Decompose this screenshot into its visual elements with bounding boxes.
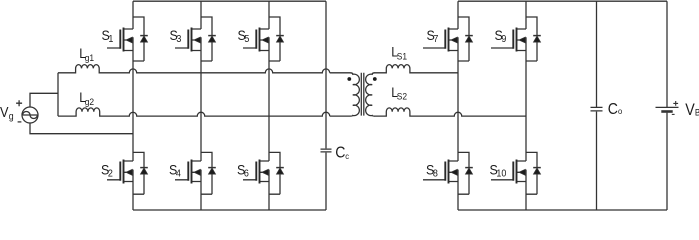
plus sign of VB [673,101,678,106]
body diode of S4 [201,152,212,194]
svg-text:o: o [618,106,623,116]
wire top rail of secondary bridge [458,0,667,2]
svg-text:S2: S2 [397,91,407,102]
transformer secondary dot [373,77,377,81]
wire leg S5/S6 vertical [268,1,270,210]
wire leg S1/S2 vertical [132,1,134,210]
transformer primary winding [330,73,360,116]
body diode of S6 [269,152,280,194]
label S2 [101,162,113,180]
minus sign of VB [672,113,675,115]
transistor S7 [423,29,458,51]
svg-text:8: 8 [433,168,438,180]
wire Vg- to leg S1/S2 midpoint [30,123,133,134]
wire split-node vertical [57,73,59,116]
svg-text:1: 1 [108,34,113,46]
svg-text:6: 6 [244,168,249,180]
transformer core [361,73,364,116]
inductor LS1 and wire from secondary top to S7/S8 midpoint [374,65,458,73]
svg-text:9: 9 [501,34,506,46]
transformer secondary winding [366,73,375,116]
transistor S3 [175,29,201,51]
inductor LS2 and wire from secondary bottom to S9/S10 midpoint (hops S7/S8 leg) [374,108,526,116]
wire leg S7/S8 vertical [457,1,459,210]
svg-text:g2: g2 [85,96,94,107]
svg-text:C: C [608,100,618,118]
label Vg [0,104,14,121]
transistor S6 [243,161,269,182]
body diode of S10 [526,152,537,194]
transistor S1 [107,29,133,51]
svg-text:7: 7 [433,34,438,46]
body diode of S1 [133,17,144,61]
transistor S10 [491,161,526,182]
transistor S2 [107,161,133,182]
wire bottom rail of secondary bridge [458,209,667,211]
wire Vg+ to split node [30,93,58,107]
label Co [608,100,623,118]
transformer primary dot [347,77,351,81]
label VB [685,101,699,119]
svg-text:2: 2 [108,168,113,180]
plus sign of Vg [16,100,22,106]
transistor S5 [243,29,269,51]
label Lg2 [79,89,94,107]
svg-text:B: B [695,107,699,118]
inductor Lg1 and top primary wire to transformer (hops legs S1/S2, S5/S6, Cc; joins S3/S4 midpoint) [58,65,330,73]
capacitor Co [591,1,603,210]
body diode of S9 [526,17,537,61]
wire bottom rail of primary bridge [133,209,326,211]
label S8 [426,162,438,180]
label S6 [237,162,249,180]
wire top rail of primary bridge [133,0,326,2]
capacitor Cc [321,1,332,210]
label S7 [427,27,439,45]
wire leg S9/S10 vertical [525,1,527,210]
svg-text:3: 3 [176,34,181,46]
label LS1 [391,44,407,62]
wire leg S3/S4 vertical [200,1,202,210]
body diode of S7 [458,17,469,61]
svg-text:g1: g1 [85,53,94,64]
body diode of S5 [269,17,280,61]
body diode of S8 [458,152,469,194]
svg-text:c: c [345,151,349,161]
label S5 [238,27,250,45]
transistor S8 [423,161,458,182]
label Lg1 [79,45,94,63]
transistor S4 [175,161,201,182]
label Cc [335,144,349,162]
svg-text:g: g [9,110,14,122]
svg-text:5: 5 [244,34,249,46]
body diode of S2 [133,152,144,194]
battery VB [656,1,679,210]
label S1 [102,27,114,45]
label S3 [170,27,182,45]
minus sign of Vg [18,121,22,123]
body diode of S3 [201,17,212,61]
label S9 [495,27,507,45]
transistor S9 [491,29,526,51]
svg-text:S1: S1 [397,51,407,62]
inductor Lg2 and bottom primary wire to transformer (hops legs S1/S2, S3/S4, Cc; joins S5/S6 midpoint) [58,108,330,116]
label S10 [490,162,507,180]
svg-text:10: 10 [496,168,506,180]
label S4 [169,162,182,180]
label LS2 [391,84,407,101]
svg-text:4: 4 [176,168,182,180]
svg-text:C: C [335,144,345,162]
voltage source Vg [22,107,38,123]
